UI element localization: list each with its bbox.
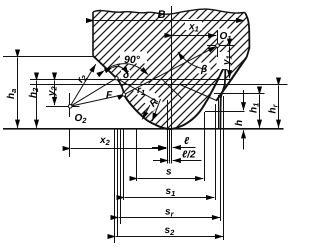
die axis v1 (167, 100, 169, 164)
dimension l/2 (arrows outside) (153, 150, 202, 161)
svg-text:h: h (234, 120, 245, 126)
left vertical edge of die block (92, 12, 94, 56)
point F (122, 93, 125, 96)
dimension y2 (47, 81, 59, 105)
radius r1 dimension from F to O1 (125, 46, 216, 97)
crest reference line (left) (3, 56, 93, 58)
center point O2 (68, 105, 72, 109)
dimension B (die width) (94, 9, 244, 21)
white halos for labels over hatching (120, 19, 231, 112)
h1-top reference line (214, 93, 265, 95)
x2 left extension line (69, 130, 71, 158)
extension line s1 left (under F) (123, 130, 125, 201)
point P (115, 77, 118, 80)
dimension x2 (71, 135, 167, 149)
h-top reference line (205, 111, 245, 113)
dimension y1 (222, 47, 234, 79)
angle arc 90 degrees (outer) (105, 64, 149, 75)
svg-text:β: β (200, 64, 207, 75)
dimension s1 (125, 186, 215, 198)
dimension ha (6, 58, 18, 128)
center point O1 (216, 44, 220, 48)
construction line O2 to F (70, 95, 124, 107)
hatched die block (material cross-section) (93, 9, 249, 129)
right die tooth flank (216, 57, 247, 101)
extension line sr left (117, 130, 119, 238)
dimension l (arrows outside) (152, 136, 196, 148)
dimension h2 (28, 81, 40, 128)
extension line sr right (220, 130, 222, 222)
right edge of die block (245, 13, 249, 58)
mid axis v2 (169, 130, 171, 164)
extension line left inner (120, 130, 122, 225)
svg-text:90°: 90° (124, 54, 141, 66)
dimension sr (119, 207, 220, 219)
dimension h (arrows outside) (234, 90, 245, 150)
die tooth left flank (93, 56, 117, 78)
extension line s right (204, 112, 206, 181)
extension line s2 left (114, 130, 116, 244)
construction line O2 to P (70, 78, 116, 106)
svg-text:ℓ/2: ℓ/2 (182, 150, 196, 161)
dimension hr (268, 86, 280, 128)
svg-text:F: F (106, 90, 113, 101)
fillet arc r2 on left flank (117, 78, 125, 94)
center mark O2 (46, 93, 87, 125)
thread crest line toward flank (180, 85, 217, 101)
extension line thread fin (218, 95, 220, 129)
angle beta arc at O1 (178, 52, 206, 70)
center mark O1 (207, 30, 235, 57)
dimension s (138, 167, 204, 179)
hr-top reference line (30, 84, 288, 86)
root reference line (3, 128, 284, 130)
svg-text:B: B (158, 9, 166, 21)
dimension s2 (116, 225, 223, 237)
thread fin right side (220, 66, 225, 129)
pitch reference line through P (30, 79, 233, 81)
dimension h1 (249, 95, 261, 128)
radius r2 arrow from O2 (70, 64, 96, 106)
angle arc delta (inner) (113, 66, 129, 74)
dimension x1 (173, 22, 217, 36)
thread profile construction line (45 deg) (163, 80, 183, 99)
thread flank construction line through P (117, 78, 159, 102)
svg-text:s: s (166, 167, 172, 178)
extension line s left (136, 130, 138, 182)
radius R arrows and label (142, 96, 161, 121)
extension line s1 right (215, 104, 217, 200)
die tooth root curve up to fin apex (124, 66, 225, 129)
svg-text:δ: δ (123, 70, 130, 81)
extension line s2 right (223, 96, 225, 240)
thread axis under B (171, 6, 173, 164)
svg-text:ℓ: ℓ (184, 136, 190, 147)
